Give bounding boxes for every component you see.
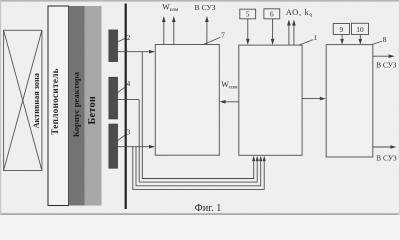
arrowhead into block7 upper (149, 50, 155, 54)
arrowhead into block7 lower (149, 145, 155, 149)
output to CPS lower right (373, 146, 395, 148)
wire detector3 to block7 (118, 146, 154, 148)
coolant strip (Теплоноситель) (48, 6, 69, 206)
wire loop C (from detector4 elbow) (139, 100, 257, 183)
leader to label 2 (118, 38, 126, 42)
leader to label 8 (372, 41, 382, 44)
block 6 (264, 9, 280, 19)
wire block9 to block8 (341, 35, 343, 43)
output to CPS upper right (373, 55, 393, 57)
leader to label 1 (299, 40, 313, 46)
arrowhead D (263, 156, 266, 161)
output arrow Wизм b (173, 19, 175, 45)
wire block6 to block1 (272, 19, 274, 43)
concrete strip (Бетон) (85, 6, 102, 206)
detector 4 (109, 77, 118, 119)
wire block5 to block1 (247, 19, 249, 43)
output arrow to CPS from block7 (206, 19, 208, 45)
detector 2 (109, 30, 118, 62)
leader to label 7 (204, 37, 220, 44)
block 5 (240, 9, 256, 19)
block 9 (333, 24, 349, 35)
block 10 (352, 23, 369, 34)
arrowhead C (256, 156, 259, 161)
wire loop D (from detector3 line, outer) (133, 147, 264, 190)
reactor vessel strip (Корпус реактора) (69, 6, 85, 206)
output arrow AO a (288, 22, 290, 46)
detector 3 (109, 124, 118, 168)
wire loop A (from detector2 line to block1 bottom) (142, 52, 253, 179)
wire block10 to block8 (359, 35, 361, 43)
block 7 (power measurement) (155, 45, 219, 156)
output arrow AO b (293, 22, 295, 46)
wire loop B (from detector3 line) (136, 147, 261, 186)
wire block1 to block8 (302, 98, 324, 100)
leader to label 4 (118, 87, 125, 92)
biological shield thick line (125, 4, 127, 210)
block 1 (АО computer) (239, 45, 302, 155)
scan grain overlay (0, 0, 1, 1)
wire detector2 to block7 (118, 51, 154, 53)
wire block1 to block7 (Wизм) (221, 101, 239, 103)
wire detector4 elbow (118, 99, 140, 101)
leader to label 3 (118, 135, 126, 141)
active core box (Активная зона) (4, 30, 42, 170)
block 8 (comparison unit) (326, 45, 373, 157)
arrowhead A (252, 156, 255, 161)
output arrow Wизм a (163, 19, 165, 45)
arrowhead B (259, 156, 262, 161)
